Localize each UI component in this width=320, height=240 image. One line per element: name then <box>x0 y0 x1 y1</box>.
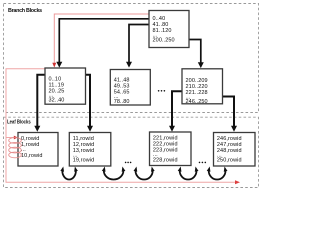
svg-text:246..250: 246..250 <box>186 99 208 105</box>
wire root to branch 2 (black) <box>126 25 149 68</box>
svg-text:10,rowid: 10,rowid <box>21 153 43 159</box>
wire root to branch 3 (black) <box>189 40 204 69</box>
red arrow into leaf block 1 <box>6 136 18 140</box>
branch block 2 <box>110 70 150 106</box>
wire branch1 to leaf1 <box>34 75 45 132</box>
svg-text:19,rowid: 19,rowid <box>73 158 95 164</box>
curved link arrow ellipsis-leaf3 <box>136 171 153 180</box>
svg-text:32..40: 32..40 <box>49 98 65 104</box>
curved link arrow leaf2-ellipsis <box>104 171 124 180</box>
curved link arrow ellipsis-leaf4 <box>209 171 226 180</box>
curved link arrow leaf1-leaf2 <box>62 171 76 180</box>
red oval highlights on leaf 1 entries <box>9 138 22 158</box>
ellipsis between branch 2 and 3 <box>158 90 165 92</box>
red search path: left branch down left side to bottom arrow <box>6 69 240 185</box>
svg-text:228,rowid: 228,rowid <box>153 157 178 163</box>
wire root to branch 1 (black) <box>56 19 149 68</box>
leaf block 3 <box>150 132 192 166</box>
ellipsis between leaf 2 and 3 <box>125 162 132 164</box>
svg-text:Leaf Blocks: Leaf Blocks <box>7 119 31 126</box>
branch block 3 <box>182 69 223 105</box>
svg-text:Branch Blocks: Branch Blocks <box>8 8 42 14</box>
red search path: root to left branch <box>52 14 149 68</box>
wire branch3 to leaf4 <box>223 97 238 132</box>
svg-text:250,rowid: 250,rowid <box>217 158 242 164</box>
svg-text:78..80: 78..80 <box>114 99 130 105</box>
leaf block 2 <box>69 133 111 167</box>
svg-text:200..250: 200..250 <box>153 38 175 44</box>
ellipsis between leaf 3 and 4 <box>199 162 206 164</box>
root block <box>149 11 189 48</box>
wire branch3 to leaf3 <box>169 91 182 131</box>
leaf block 4 <box>214 133 256 167</box>
wire branch1 to leaf2 <box>86 75 94 132</box>
leaf region dashed border <box>4 117 259 187</box>
branch region dashed border <box>4 4 259 113</box>
branch block 1 <box>45 68 86 104</box>
leaf block 1 <box>18 133 58 167</box>
curved link arrow leaf3-ellipsis <box>180 171 197 180</box>
